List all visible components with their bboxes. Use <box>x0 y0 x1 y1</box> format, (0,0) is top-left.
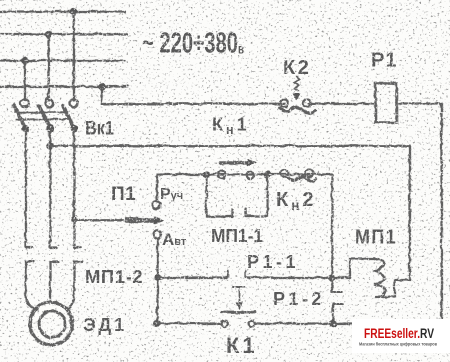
wire bottom line left of K1 <box>157 322 221 324</box>
pushbutton K1 arrowhead <box>235 302 242 310</box>
wire control feed L4 <box>0 85 127 87</box>
contact R1-2 tick upper <box>332 290 342 292</box>
switch Vk1 linkage bars <box>14 111 67 113</box>
pushbutton K1 terminals <box>221 320 227 326</box>
pushbutton K2 actuator zigzag stem <box>294 76 299 90</box>
contact P1 arrow <box>126 216 136 222</box>
contact MP1-2 pole C upper foot <box>74 246 81 248</box>
pushbutton K1 T-bar <box>232 285 245 287</box>
switch Vk1 blade 3 <box>62 105 74 128</box>
logo background panel <box>352 319 450 353</box>
contact MP1-1 left hook <box>206 174 232 216</box>
pushbutton actuator arrow above <box>220 160 248 163</box>
selector Ruch terminal <box>152 200 160 208</box>
wire L4 step down to K2 line <box>101 86 284 103</box>
contact R1-2 lower segment <box>331 303 333 323</box>
coil MP1 squiggle <box>373 258 385 297</box>
contact MP1-2 pole A upper foot <box>25 246 32 248</box>
contact R1-2 tick lower <box>333 302 342 304</box>
node MP1-1 left drop <box>202 170 209 177</box>
wire phase line L3 <box>0 59 124 61</box>
wire motor lead C curve <box>66 293 74 309</box>
contact MP1-2 pole B lower hook <box>50 261 58 302</box>
wire Kn1 long control wire <box>50 144 410 146</box>
wire lower phase C <box>72 128 74 248</box>
contact P1 arm wire <box>74 218 131 220</box>
node branch / R1-1 junction <box>327 273 335 281</box>
wire phase line L2 <box>0 32 127 34</box>
selector Avt terminal <box>153 230 161 238</box>
contact R1-2 upper segment <box>330 277 332 291</box>
wire vertical phase C <box>23 60 25 100</box>
wire Ruch up to Kn2 line <box>157 174 332 201</box>
wire lower phase A <box>24 128 26 248</box>
switch Vk1 pole terminals <box>20 98 28 106</box>
wire lower phase B <box>48 128 50 248</box>
wire vertical phase A <box>72 11 74 100</box>
pushbutton Kn2 terminal circles <box>218 170 226 178</box>
motor ED1 outer circle <box>29 302 72 345</box>
wire right branch vertical to coil <box>375 145 409 296</box>
pushbutton Kn2 bridge smear arcs <box>287 176 315 180</box>
pushbutton K1 stem <box>238 286 240 300</box>
wire R1-1 junction to coil MP1 <box>331 258 374 277</box>
contact MP1-1 right hook <box>245 174 267 216</box>
node L1/V1 junction <box>69 7 76 14</box>
pushbutton K2 bridge smear arcs <box>279 107 316 112</box>
switch Vk1 blade 1 <box>14 105 26 128</box>
wire K2 to R1 <box>308 102 375 104</box>
pushbutton K2 terminals <box>279 98 287 106</box>
pushbutton K1 bridge bar <box>221 310 255 313</box>
motor ED1 inner circle <box>38 310 64 336</box>
node P1 tap <box>71 217 76 222</box>
wire R1 to right rail <box>396 103 441 322</box>
contact MP1-2 pole A lower hook <box>25 261 33 293</box>
pushbutton K2 arrowhead <box>292 93 299 101</box>
node Kn1 wire tap <box>46 142 53 149</box>
wire R1-1 line left part <box>157 276 227 278</box>
node bottom left corner <box>153 319 160 326</box>
node MP1-1 right drop <box>263 170 270 177</box>
contact MP1-2 pole B upper foot <box>50 246 57 248</box>
wire Avt down <box>156 238 158 323</box>
relay coil R1 <box>375 83 396 123</box>
contact MP1-2 pole C lower hook <box>74 261 82 293</box>
node L2/V2 junction <box>44 30 51 37</box>
switch Vk1 hinge dots <box>21 124 28 131</box>
wire bottom line right of K1 <box>255 322 442 324</box>
node R1-2 bottom junction <box>329 319 337 327</box>
wire phase line L1 <box>0 10 125 12</box>
wire R1-1 line right part <box>245 276 331 278</box>
node Avt / R1-1 junction <box>153 273 160 280</box>
node L4 corner <box>97 82 104 89</box>
wire branch vertical Kn2 to R1-1 junction <box>330 174 332 277</box>
svg-text:Магазин бесплатных цифровых то: Магазин бесплатных цифровых товаров <box>359 341 437 348</box>
switch Vk1 blade 2 <box>38 105 50 128</box>
wire vertical phase B <box>47 34 49 100</box>
contact R1-1 tick left <box>226 271 228 278</box>
wire motor lead A curve <box>25 293 34 309</box>
contact R1-1 tick right <box>244 271 246 278</box>
node L3/V3 junction <box>20 56 27 63</box>
svg-text:FREEseller.RV: FREEseller.RV <box>364 326 434 341</box>
